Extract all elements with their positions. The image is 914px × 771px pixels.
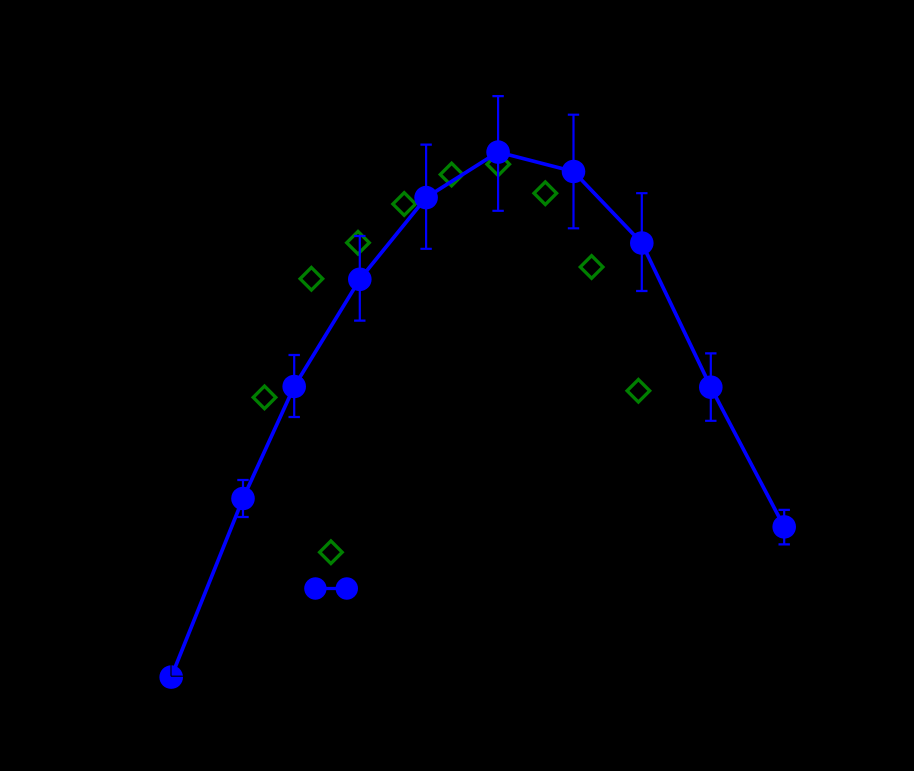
diamond D3: [347, 231, 370, 254]
error bar P7: [568, 115, 579, 229]
marker P5: [414, 186, 438, 210]
blue series line: [171, 152, 784, 677]
blue error bars: [237, 96, 790, 544]
marker P7: [562, 160, 586, 184]
error bar P6: [492, 96, 503, 211]
error bar P3: [289, 355, 300, 417]
diamond D5: [440, 163, 463, 186]
blue circle markers: [159, 140, 796, 689]
marker P6: [486, 140, 510, 164]
diamond D4: [393, 193, 416, 216]
marker P2: [231, 487, 255, 511]
marker P10: [772, 515, 796, 539]
diamond D1: [253, 386, 276, 409]
axis frame corner (black, drawn over data): [171, 80, 850, 676]
diamond D7: [534, 182, 557, 205]
error bar P8: [636, 193, 647, 291]
error bar P9: [705, 353, 716, 420]
legend line sample: [315, 587, 346, 590]
marker P8: [630, 231, 654, 255]
error bar P4: [354, 236, 365, 321]
marker P9: [699, 375, 723, 399]
green diamond series (open diamonds): [253, 153, 650, 564]
diamond D2: [300, 268, 323, 291]
diamond D8: [580, 256, 603, 279]
error bar P10: [779, 510, 790, 545]
diamond D9: [627, 380, 650, 403]
legend diamond: [320, 541, 343, 564]
marker P4: [348, 268, 372, 292]
legend marker right: [336, 577, 358, 599]
marker P3: [282, 375, 306, 399]
marker P1: [159, 665, 183, 689]
diamond D6: [487, 153, 510, 176]
error bar P5: [420, 145, 431, 249]
legend marker left: [304, 577, 326, 599]
error bar P2: [237, 480, 248, 517]
